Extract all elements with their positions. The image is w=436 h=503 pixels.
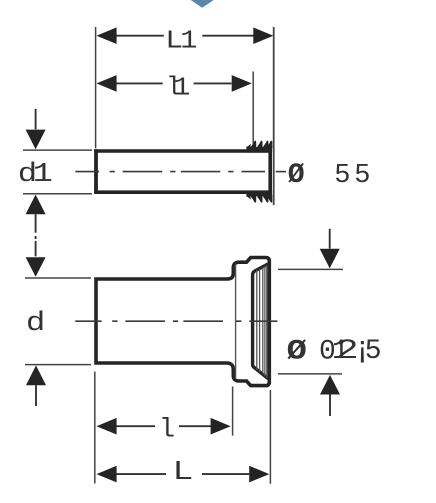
svg-text:l: l — [159, 416, 175, 446]
extension line l right — [232, 387, 234, 436]
label diameter 012.5 — [287, 331, 382, 368]
extension line L right — [269, 390, 271, 484]
svg-text:1: 1 — [180, 27, 197, 56]
pipe 2 centerline — [75, 320, 277, 322]
dimension l1 — [97, 72, 252, 103]
pipe 1 thread top — [246, 141, 272, 153]
extension lines diameter right — [278, 269, 343, 374]
svg-text:d: d — [26, 307, 45, 338]
dimension L1 — [97, 27, 274, 56]
svg-text:5: 5 — [354, 161, 370, 191]
extension line L1 left — [95, 27, 97, 148]
pipe 2 shoulder tangent line — [235, 265, 237, 380]
dimension d lower arrow — [26, 307, 46, 406]
extension line l and L left — [94, 372, 96, 484]
dimension L — [97, 457, 270, 487]
pipe 1 body outline — [94, 149, 272, 194]
svg-text:1: 1 — [33, 160, 53, 190]
dimension diameter right arrows — [320, 229, 340, 416]
dimension l — [97, 416, 231, 446]
svg-text:Ø: Ø — [287, 336, 307, 368]
svg-text:Ø: Ø — [288, 160, 305, 191]
svg-text:5: 5 — [334, 161, 350, 191]
svg-text:5: 5 — [365, 336, 382, 367]
svg-text:L: L — [172, 457, 193, 487]
pipe 2 socket hatch lines — [257, 265, 267, 378]
svg-text:1: 1 — [173, 73, 190, 102]
extension lines d1 — [23, 150, 92, 194]
pipe 2 outer profile — [96, 258, 269, 386]
pipe 2 socket inner profile — [253, 264, 269, 379]
dimension d1 arrows — [18, 109, 53, 277]
extension line L1 right — [273, 27, 275, 205]
pipe 1 centerline — [75, 171, 286, 173]
blue chevron icon — [191, 0, 214, 8]
pipe 1 thread bottom — [246, 191, 272, 203]
extension lines d — [25, 278, 91, 365]
extension line l1 right — [252, 72, 254, 148]
label diameter 55 — [288, 160, 371, 191]
